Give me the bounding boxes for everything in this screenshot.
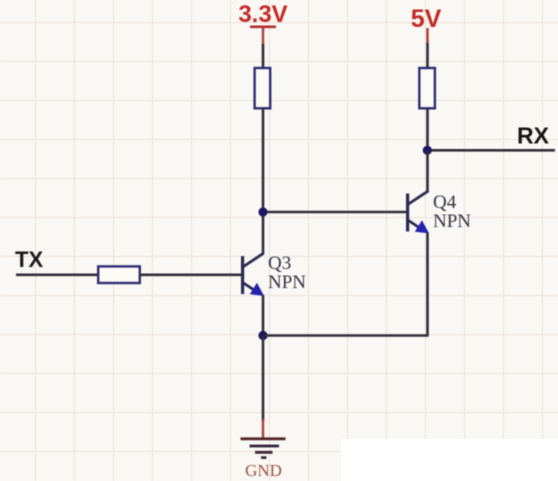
wire: ground red stub <box>262 419 264 439</box>
power flag 3.3V bar <box>250 25 276 28</box>
wire: 5V red stub <box>426 28 428 45</box>
wire: bottom rail node B to Q4 emitter <box>263 233 428 336</box>
label Q3 <box>268 253 291 274</box>
node A junction <box>258 207 267 216</box>
label TX <box>15 247 43 272</box>
wire: node C to Q4 collector <box>426 150 429 191</box>
wire: node A to Q4 base <box>263 211 406 214</box>
wire: TX lead to R2 <box>16 273 99 276</box>
label RX <box>517 123 550 149</box>
resistor R1 <box>255 68 271 108</box>
white patch bottom-right <box>341 439 558 481</box>
svg-text:NPN: NPN <box>433 211 471 232</box>
svg-text:NPN: NPN <box>268 272 306 293</box>
svg-text:Q4: Q4 <box>433 192 457 213</box>
svg-text:Q3: Q3 <box>268 253 291 274</box>
svg-text:RX: RX <box>517 123 550 149</box>
node B junction <box>258 331 267 340</box>
power flag 3.3V label <box>238 1 287 28</box>
wire: stub to resistor R3 <box>426 43 429 69</box>
transistor Q4 <box>408 191 429 233</box>
power flag 5V label <box>411 5 442 33</box>
label NPN (Q4) <box>433 211 471 232</box>
wire: stub to resistor R1 <box>262 44 265 69</box>
label GND <box>245 461 282 480</box>
svg-text:5V: 5V <box>411 5 442 33</box>
wire: 3.3V red stub <box>262 27 264 46</box>
wire: Q3 emitter to node B <box>262 295 265 336</box>
label Q4 <box>433 192 457 213</box>
svg-text:GND: GND <box>245 461 282 480</box>
wire: RX lead <box>428 149 556 152</box>
svg-text:3.3V: 3.3V <box>238 1 287 28</box>
ground symbol GND <box>241 439 286 458</box>
label NPN (Q3) <box>268 272 306 293</box>
wire: node A to Q3 collector <box>262 212 265 254</box>
node C junction <box>423 146 432 155</box>
svg-text:TX: TX <box>15 247 43 272</box>
wire: R3 to node C <box>426 108 429 150</box>
transistor Q3 <box>243 253 264 295</box>
resistor R3 <box>419 68 435 108</box>
wire: node B to ground <box>262 336 265 422</box>
resistor R2 <box>98 266 140 283</box>
wire: R1 to node A <box>262 108 265 212</box>
wire: R2 to Q3 base <box>140 273 242 276</box>
